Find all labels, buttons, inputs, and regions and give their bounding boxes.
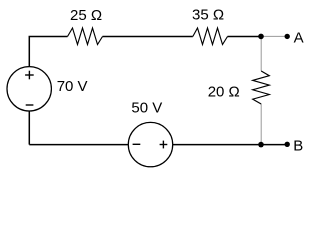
svg-text:50 V: 50 V — [131, 99, 162, 116]
svg-text:35 Ω: 35 Ω — [192, 6, 224, 23]
svg-text:70 V: 70 V — [57, 78, 88, 95]
svg-text:20 Ω: 20 Ω — [208, 83, 240, 100]
svg-text:B: B — [293, 137, 303, 154]
svg-text:A: A — [294, 30, 304, 47]
svg-text:25 Ω: 25 Ω — [70, 7, 102, 24]
